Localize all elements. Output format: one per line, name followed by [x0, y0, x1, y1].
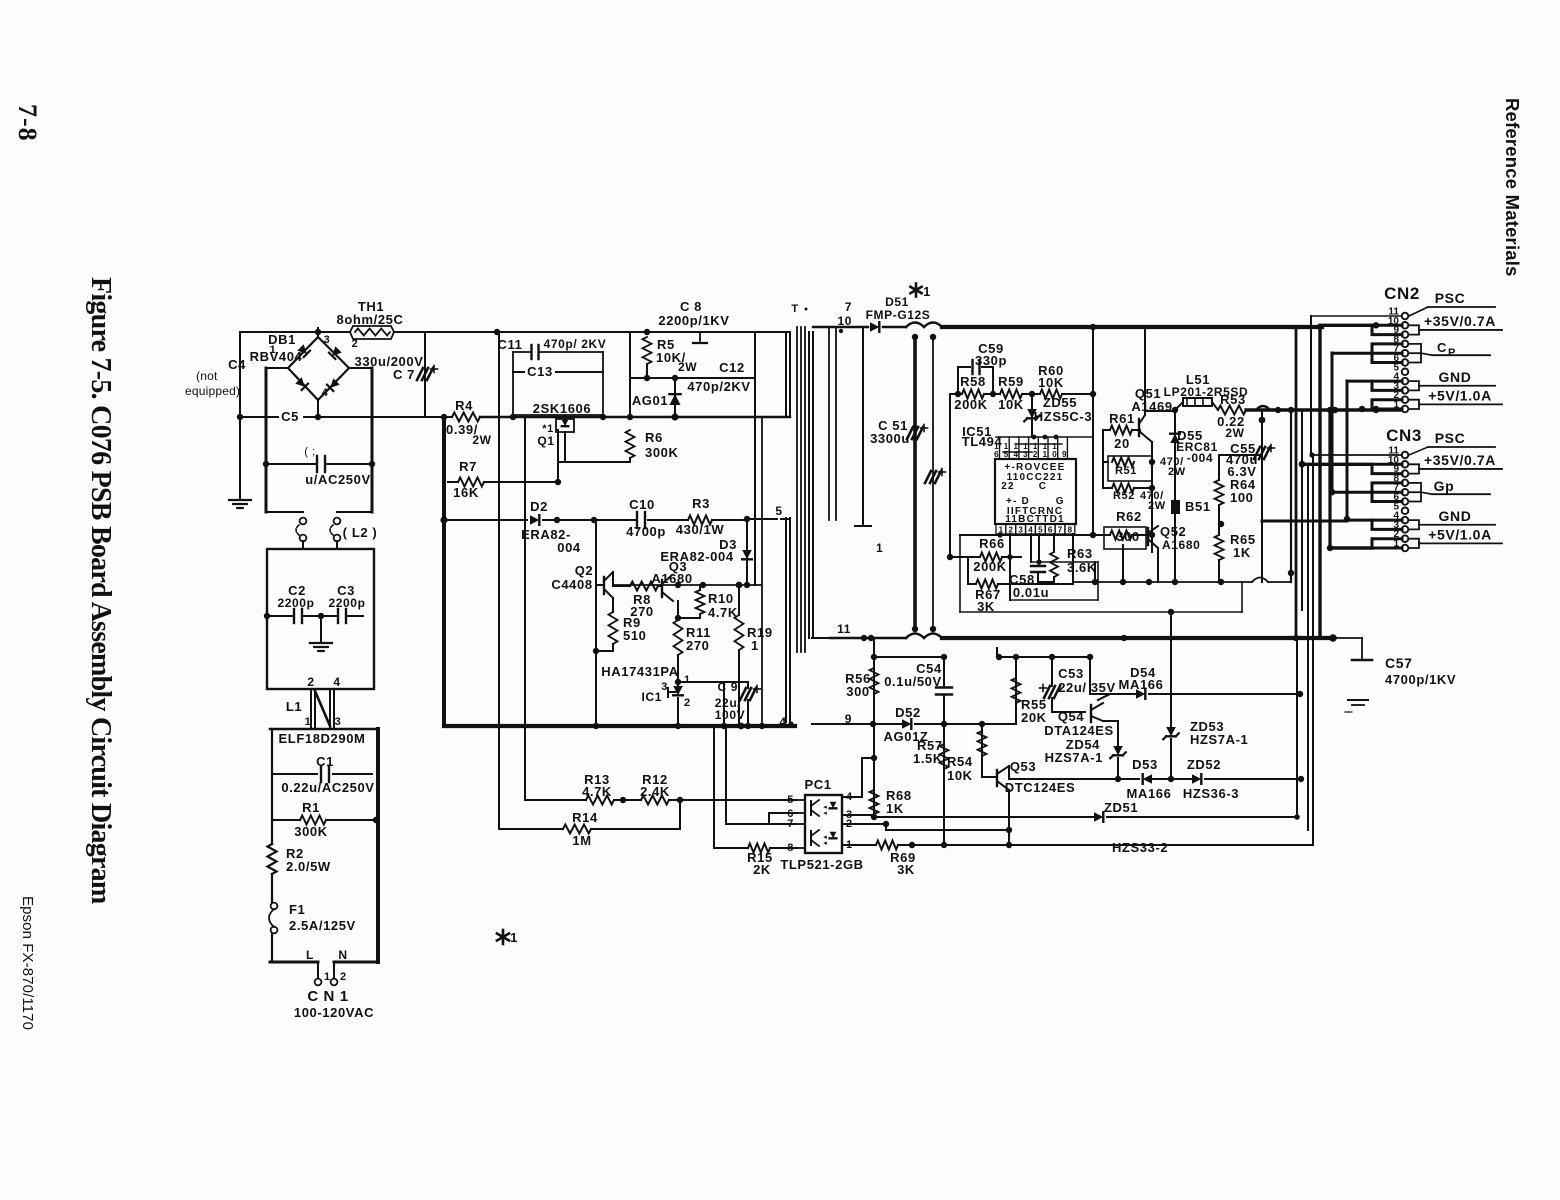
svg-text:6: 6	[994, 450, 999, 459]
svg-text:2: 2	[684, 697, 691, 709]
svg-text:A1680: A1680	[1162, 538, 1200, 552]
svg-text:2200p/1KV: 2200p/1KV	[658, 313, 729, 328]
svg-text:PSC: PSC	[1435, 430, 1466, 446]
svg-text:100-120VAC: 100-120VAC	[294, 1005, 374, 1020]
svg-text:R4: R4	[455, 398, 473, 413]
svg-text:2W: 2W	[678, 360, 697, 374]
svg-text:100V: 100V	[715, 708, 745, 722]
svg-text:470p/2KV: 470p/2KV	[687, 379, 750, 394]
svg-text:7: 7	[1058, 526, 1063, 535]
svg-text:MA166: MA166	[1119, 677, 1164, 692]
svg-text:4.7K: 4.7K	[582, 784, 612, 799]
svg-text:2200p: 2200p	[328, 596, 365, 610]
svg-text:GND: GND	[1439, 508, 1472, 524]
svg-text:HZS7A-1: HZS7A-1	[1190, 732, 1248, 747]
svg-text:D53: D53	[1132, 757, 1158, 772]
svg-text:C N 1: C N 1	[307, 988, 348, 1005]
svg-text:20K: 20K	[1021, 710, 1047, 725]
svg-text:0.01u: 0.01u	[1013, 585, 1049, 600]
svg-text:470p/ 2KV: 470p/ 2KV	[544, 337, 607, 351]
svg-text:C 8: C 8	[680, 299, 702, 314]
svg-text:P: P	[1448, 347, 1456, 359]
svg-text:1: 1	[270, 344, 277, 356]
svg-text:1: 1	[684, 674, 691, 686]
svg-text:ZD51: ZD51	[1104, 800, 1138, 815]
svg-text:200K: 200K	[954, 397, 987, 412]
svg-text:3: 3	[335, 716, 342, 728]
svg-text:C 9: C 9	[718, 680, 738, 694]
svg-text:0.22u/AC250V: 0.22u/AC250V	[281, 780, 374, 795]
svg-text:F1: F1	[289, 902, 305, 917]
svg-text:C53: C53	[1058, 666, 1084, 681]
svg-text:C13: C13	[527, 364, 553, 379]
svg-text:Epson FX-870/1170: Epson FX-870/1170	[19, 896, 36, 1030]
svg-text:CN2: CN2	[1384, 284, 1420, 303]
svg-text:1K: 1K	[886, 801, 904, 816]
svg-text:L: L	[306, 948, 314, 962]
svg-text:330p: 330p	[975, 353, 1007, 368]
svg-text:Q53: Q53	[1010, 759, 1036, 774]
svg-text:10K: 10K	[998, 397, 1024, 412]
svg-text:u/AC250V: u/AC250V	[305, 472, 371, 487]
svg-text:16K: 16K	[453, 485, 479, 500]
svg-text:20: 20	[1114, 436, 1130, 451]
svg-text:ZD52: ZD52	[1187, 757, 1221, 772]
svg-text:R58: R58	[960, 374, 986, 389]
svg-text:9: 9	[1062, 450, 1067, 459]
svg-text:C: C	[1437, 340, 1447, 355]
svg-text:4700p/1KV: 4700p/1KV	[1385, 672, 1456, 687]
svg-text:5: 5	[775, 504, 782, 518]
svg-text:7: 7	[845, 300, 852, 314]
svg-text:R6: R6	[645, 430, 663, 445]
svg-text:11: 11	[837, 622, 851, 636]
svg-text:3: 3	[324, 334, 331, 346]
svg-text:110CC221: 110CC221	[1007, 472, 1064, 483]
svg-text:1: 1	[324, 971, 331, 983]
svg-text:FMP-G12S: FMP-G12S	[866, 308, 931, 322]
svg-text:C11: C11	[498, 337, 523, 352]
svg-text:Reference Materials: Reference Materials	[1502, 98, 1523, 277]
svg-text:3300u: 3300u	[870, 431, 910, 446]
svg-text:ZD55: ZD55	[1043, 395, 1077, 410]
svg-text:D52: D52	[895, 705, 921, 720]
svg-text:HZS5C-3: HZS5C-3	[1034, 409, 1092, 424]
svg-text:2.0/5W: 2.0/5W	[286, 859, 331, 874]
svg-text:+35V/0.7A: +35V/0.7A	[1424, 313, 1496, 329]
svg-text:22u/ 35V: 22u/ 35V	[1058, 680, 1116, 695]
svg-text:+5V/1.0A: +5V/1.0A	[1428, 387, 1492, 403]
svg-text:+35V/0.7A: +35V/0.7A	[1424, 452, 1496, 468]
svg-text:equipped): equipped)	[185, 384, 240, 398]
svg-text:2: 2	[340, 971, 347, 983]
svg-text:D51: D51	[885, 295, 909, 309]
svg-text:Gp: Gp	[1434, 478, 1455, 494]
svg-text:HZS33-2: HZS33-2	[1112, 840, 1168, 855]
svg-text:ELF18D290M: ELF18D290M	[279, 731, 366, 746]
svg-text:Figure 7-5. C076 PSB Board As: Figure 7-5. C076 PSB Board Assembly Circ…	[85, 277, 116, 904]
svg-text:10K: 10K	[1038, 375, 1064, 390]
svg-text:2: 2	[1033, 450, 1038, 459]
svg-text:C1: C1	[316, 754, 334, 769]
svg-text:300K: 300K	[294, 824, 327, 839]
svg-text:2SK1606: 2SK1606	[533, 401, 591, 416]
svg-text:C10: C10	[629, 497, 655, 512]
svg-text:CN3: CN3	[1386, 426, 1422, 445]
svg-text:B51: B51	[1185, 499, 1211, 514]
svg-text:7-8: 7-8	[13, 104, 42, 142]
svg-text:R52: R52	[1113, 490, 1135, 502]
svg-text:3: 3	[661, 681, 668, 693]
svg-text:C 7: C 7	[393, 367, 415, 382]
svg-text:1: 1	[510, 930, 518, 945]
svg-text:300K: 300K	[645, 445, 678, 460]
svg-text:( L2 ): ( L2 )	[343, 525, 378, 540]
svg-text:GND: GND	[1439, 369, 1472, 385]
svg-text:1K: 1K	[1233, 545, 1251, 560]
svg-text:3.6K: 3.6K	[1067, 560, 1097, 575]
svg-text:R54: R54	[947, 754, 973, 769]
svg-text:2W: 2W	[472, 433, 491, 447]
svg-text:4: 4	[322, 387, 329, 399]
svg-text:DTC124ES: DTC124ES	[1005, 780, 1076, 795]
svg-text:2: 2	[307, 675, 314, 689]
svg-text:300: 300	[1116, 529, 1140, 544]
svg-text:C5: C5	[281, 409, 299, 424]
svg-text:Q54: Q54	[1058, 709, 1085, 724]
svg-text:N: N	[338, 948, 347, 962]
svg-text:R3: R3	[692, 496, 710, 511]
svg-text:R10: R10	[708, 591, 734, 606]
svg-text:200K: 200K	[973, 559, 1006, 574]
svg-text:100: 100	[1230, 490, 1254, 505]
svg-text:0.1u/50V: 0.1u/50V	[884, 674, 942, 689]
svg-text:R1: R1	[302, 800, 320, 815]
svg-text:PC1: PC1	[804, 777, 831, 792]
svg-text:1: 1	[305, 716, 312, 728]
svg-text:(not: (not	[196, 369, 218, 383]
svg-text:TLP521-2GB: TLP521-2GB	[780, 857, 863, 872]
svg-text:2W: 2W	[1168, 466, 1186, 478]
svg-text:MA166: MA166	[1127, 786, 1172, 801]
svg-text:◂: ◂	[823, 840, 827, 847]
svg-text:C: C	[1039, 481, 1047, 492]
svg-text:R62: R62	[1116, 509, 1142, 524]
svg-text:1M: 1M	[572, 833, 591, 848]
svg-text:HA17431PA: HA17431PA	[601, 664, 678, 679]
svg-text:1: 1	[876, 541, 883, 555]
svg-text:4: 4	[333, 675, 340, 689]
svg-text:2.5A/125V: 2.5A/125V	[289, 918, 356, 933]
svg-text:Q52: Q52	[1160, 524, 1186, 539]
svg-text:0: 0	[1052, 450, 1057, 459]
svg-text:R63: R63	[1067, 546, 1093, 561]
svg-text:1.5K: 1.5K	[913, 751, 943, 766]
svg-text:R66: R66	[979, 536, 1005, 551]
svg-text:10K: 10K	[947, 768, 973, 783]
svg-text:3K: 3K	[897, 862, 915, 877]
svg-text:R7: R7	[459, 459, 477, 474]
svg-text:C4408: C4408	[551, 577, 592, 592]
svg-text:D2: D2	[530, 499, 548, 514]
svg-text:AG01: AG01	[632, 393, 668, 408]
svg-text:1: 1	[751, 638, 759, 653]
svg-text:2K: 2K	[753, 862, 771, 877]
svg-text:-004: -004	[1187, 451, 1213, 465]
svg-text:R51: R51	[1115, 465, 1137, 477]
svg-text:22: 22	[1001, 481, 1015, 492]
svg-text:2200p: 2200p	[277, 596, 314, 610]
svg-text:( ;: ( ;	[304, 446, 316, 458]
svg-text:430/1W: 430/1W	[676, 522, 725, 537]
svg-text:510: 510	[623, 628, 647, 643]
svg-text:HZS7A-1: HZS7A-1	[1045, 750, 1103, 765]
svg-text:C4: C4	[228, 357, 246, 372]
svg-text:Q1: Q1	[537, 434, 554, 448]
svg-text:2.4K: 2.4K	[640, 784, 670, 799]
svg-text:2W: 2W	[1225, 426, 1244, 440]
svg-text:2W: 2W	[1148, 500, 1166, 512]
svg-text:T: T	[791, 303, 798, 315]
svg-text:L1: L1	[286, 699, 302, 714]
svg-text:C57: C57	[1385, 655, 1412, 671]
svg-text:◂: ◂	[823, 810, 827, 817]
svg-text:11BCTTD1: 11BCTTD1	[1005, 514, 1065, 525]
svg-text:IC1: IC1	[642, 690, 662, 704]
svg-text:R59: R59	[998, 374, 1024, 389]
svg-text:R14: R14	[572, 810, 598, 825]
svg-text:DTA124ES: DTA124ES	[1044, 723, 1114, 738]
svg-text:C12: C12	[719, 360, 745, 375]
svg-text:HZS36-3: HZS36-3	[1183, 786, 1239, 801]
svg-text:+5V/1.0A: +5V/1.0A	[1428, 526, 1492, 542]
svg-text:1: 1	[1043, 450, 1048, 459]
svg-text:270: 270	[686, 638, 710, 653]
svg-text:A1680: A1680	[651, 571, 692, 586]
svg-text:R53: R53	[1220, 392, 1246, 407]
svg-text:8: 8	[1068, 526, 1073, 535]
svg-text:PSC: PSC	[1435, 290, 1466, 306]
svg-text:004: 004	[557, 540, 581, 555]
svg-text:3: 3	[1018, 526, 1023, 535]
svg-text:8ohm/25C: 8ohm/25C	[337, 312, 404, 327]
svg-text:4700p: 4700p	[626, 524, 666, 539]
svg-text:Q2: Q2	[575, 563, 594, 578]
svg-text:6: 6	[1048, 526, 1053, 535]
svg-text:300: 300	[846, 684, 870, 699]
svg-text:1: 1	[923, 284, 931, 299]
